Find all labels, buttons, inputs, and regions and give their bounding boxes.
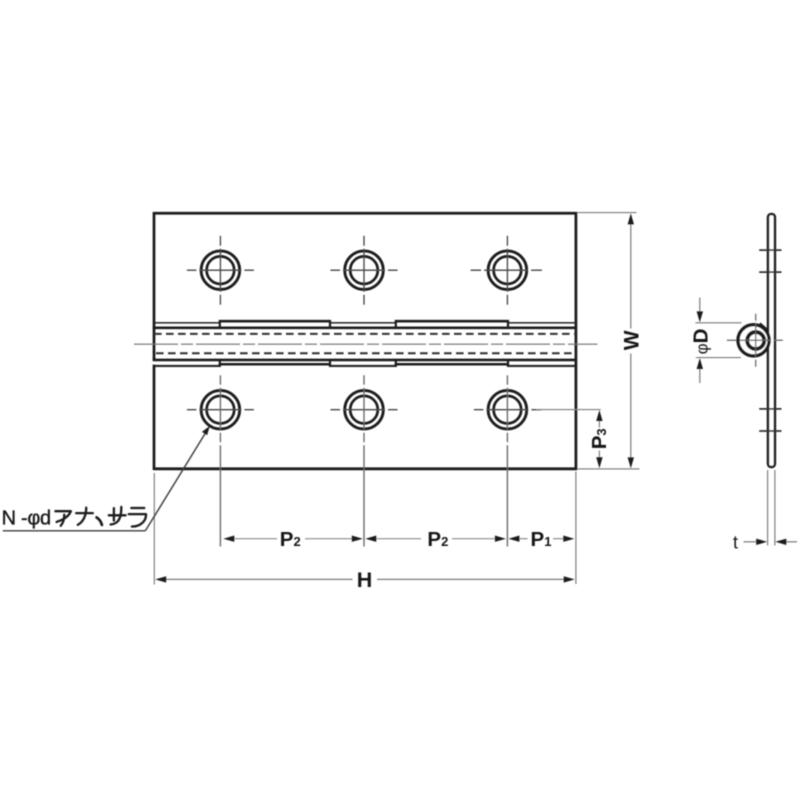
- hole A3 (top-right): [471, 236, 542, 305]
- knuckle joint verticals: [219, 320, 221, 329]
- barrel bottom edge: [153, 359, 577, 362]
- leader line: [145, 430, 207, 531]
- knuckle 2 bottom edge: [219, 363, 331, 366]
- svg-text:W: W: [621, 330, 644, 350]
- hole B2 (bottom-middle): [331, 375, 398, 546]
- label phiD: [690, 329, 713, 355]
- hole B1 (bottom-left): [187, 375, 254, 546]
- katakana RA: [131, 507, 144, 509]
- hinge bottom edge: [153, 467, 577, 470]
- leader arrowhead: [202, 426, 210, 435]
- katakana SA: [109, 514, 126, 516]
- phiD bottom extension line: [696, 357, 741, 359]
- knuckle 2 top edge: [219, 320, 331, 323]
- katakana A: [55, 511, 71, 522]
- phiD arrow stems: [699, 298, 701, 313]
- katakana NA: [76, 512, 93, 514]
- H dimension line: [166, 578, 353, 580]
- svg-text:t: t: [733, 532, 738, 552]
- japanese comma: [97, 517, 102, 525]
- W bottom extension line: [578, 468, 640, 470]
- side plate: [768, 214, 775, 467]
- knuckle curl inner (pin hole): [747, 332, 764, 349]
- arrowheads P row: [223, 536, 234, 542]
- knuckle 4 top edge: [395, 320, 509, 323]
- hinge leaf left edge: [153, 212, 156, 361]
- phiD top extension line: [695, 322, 741, 324]
- label P3: [588, 428, 611, 449]
- curl horizontal centerline: [727, 339, 783, 341]
- t extension lines: [767, 470, 769, 546]
- svg-text:H: H: [357, 568, 373, 592]
- H left extension line: [153, 473, 155, 585]
- label W: [621, 330, 644, 350]
- H right extension line: [575, 472, 577, 585]
- W top extension line: [578, 212, 637, 214]
- hinge top leaf top edge: [153, 212, 577, 215]
- hole A2 (top-middle): [331, 236, 398, 305]
- P3 dimension line: [598, 420, 600, 427]
- bottom leaf left edge: [153, 365, 156, 470]
- t dimension line: [744, 541, 757, 543]
- knuckle curl outer: [738, 325, 769, 356]
- dimension line segments: [231, 538, 277, 540]
- bottom leaf top edge (flush segments): [155, 365, 220, 367]
- svg-text:φD: φD: [690, 329, 713, 355]
- W dimension line: [630, 224, 632, 329]
- hole A1 (top-left): [187, 236, 254, 305]
- hinge right edge: [575, 212, 578, 470]
- hole B3 (bottom-right): [474, 375, 542, 546]
- curl tail connector: [760, 324, 769, 331]
- pin centerline: [134, 343, 598, 345]
- hidden line upper: [154, 333, 576, 335]
- hidden line lower: [156, 352, 576, 354]
- callout underline: [3, 530, 146, 532]
- svg-text:N -φd: N -φd: [2, 507, 51, 529]
- hole position ticks: [759, 249, 781, 251]
- barrel top edge: [153, 326, 577, 329]
- top leaf bottom edge (flush segments): [155, 322, 220, 324]
- P3 extension line: [536, 409, 601, 411]
- knuckle 4 bottom edge: [395, 363, 509, 366]
- curl vertical centerline: [755, 314, 757, 367]
